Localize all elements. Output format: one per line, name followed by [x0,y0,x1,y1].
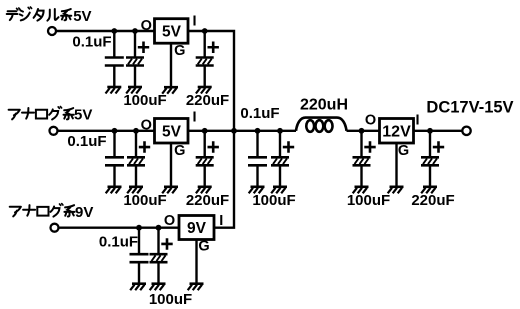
svg-text:100uF: 100uF [252,192,295,209]
svg-text:9V: 9V [75,204,93,221]
svg-text:100uF: 100uF [123,92,166,109]
svg-text:I: I [192,110,196,126]
svg-text:220uF: 220uF [186,92,229,109]
svg-text:O: O [164,213,175,229]
svg-text:G: G [174,43,185,59]
svg-text:100uF: 100uF [149,291,192,308]
svg-text:G: G [198,239,209,255]
svg-text:5V: 5V [73,8,91,25]
svg-text:9V: 9V [187,220,207,237]
svg-text:DC17V-15V: DC17V-15V [426,99,513,117]
svg-text:O: O [141,18,152,34]
svg-text:0.1uF: 0.1uF [67,133,106,150]
svg-text:220uF: 220uF [186,192,229,209]
svg-text:I: I [192,14,196,30]
svg-text:220uH: 220uH [300,97,348,114]
svg-text:G: G [398,143,409,159]
svg-text:5V: 5V [74,106,92,123]
svg-text:0.1uF: 0.1uF [72,34,111,51]
svg-text:100uF: 100uF [123,192,166,209]
svg-text:O: O [365,113,376,129]
svg-text:O: O [141,118,152,134]
svg-text:5V: 5V [162,24,182,41]
svg-text:100uF: 100uF [347,192,390,209]
svg-text:5V: 5V [162,123,182,140]
svg-text:I: I [415,113,419,129]
svg-text:0.1uF: 0.1uF [240,105,279,122]
svg-text:0.1uF: 0.1uF [99,233,138,250]
svg-text:I: I [219,213,223,229]
svg-text:220uF: 220uF [411,192,454,209]
svg-text:G: G [174,143,185,159]
svg-text:12V: 12V [382,124,411,141]
